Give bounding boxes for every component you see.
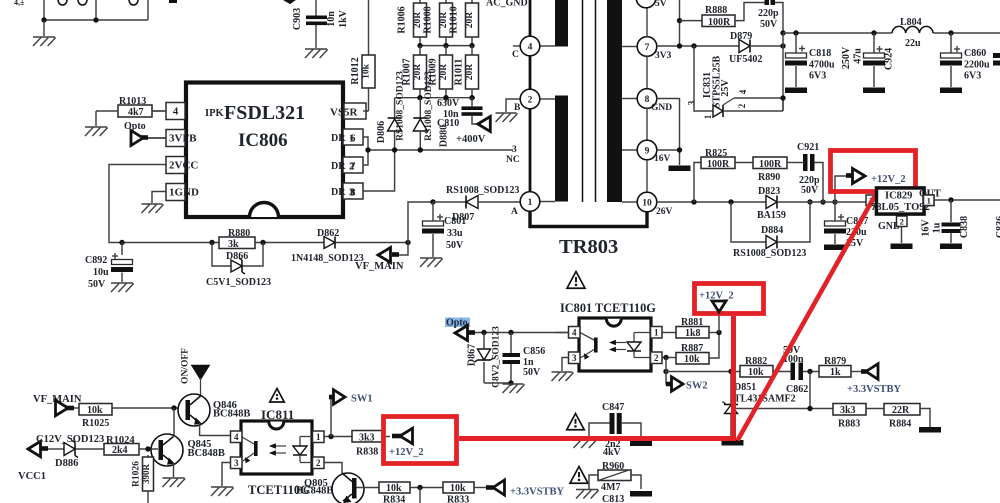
junction dot VF_MAIN node: [405, 240, 410, 245]
label Opto left: [124, 121, 146, 132]
svg-text:8: 8: [645, 95, 650, 105]
svg-text:VF_MAIN: VF_MAIN: [355, 261, 404, 272]
net arrow +12V_2 at R838: [389, 428, 424, 458]
svg-text:20R: 20R: [465, 64, 475, 81]
ground pin3 IC801: [552, 372, 574, 381]
svg-text:Opto: Opto: [124, 121, 146, 132]
svg-text:10k: 10k: [386, 483, 402, 494]
diode D884: [731, 202, 810, 259]
wire pin9 16V: [657, 149, 680, 151]
svg-text:20R: 20R: [465, 12, 475, 29]
svg-text:R838: R838: [356, 447, 378, 458]
wire 5V rail: [783, 32, 1000, 34]
pin 3 VFB of IC806: [148, 130, 197, 147]
transformer TR803 left winding bars: [555, 0, 568, 202]
svg-text:D884: D884: [761, 225, 783, 236]
junction dots bottom rail: [417, 95, 474, 100]
diode D806: [376, 98, 402, 150]
diode D862: [291, 228, 408, 264]
ground pin3 IC811: [211, 487, 234, 496]
op-amp IC801 optocoupler: [579, 318, 651, 371]
svg-text:4M7: 4M7: [601, 482, 620, 493]
pin 1 GND of IC806: [152, 184, 199, 204]
svg-text:100R: 100R: [708, 17, 731, 28]
resistor R1010: [449, 0, 479, 46]
resistor R890: [753, 157, 787, 183]
junction dots 26V rail: [691, 199, 837, 204]
pin 2 of IC801: [651, 352, 677, 364]
pin 10 of TR803: [622, 192, 673, 217]
label RS1008_SOD123 left: [396, 71, 406, 141]
pin 8 DR of IC806: [331, 150, 395, 199]
label IC801 TCET110G: [560, 301, 656, 315]
svg-text:D806: D806: [376, 121, 387, 143]
svg-text:1k: 1k: [830, 367, 841, 378]
wire Q845 collector: [173, 408, 175, 437]
resistor R882: [740, 356, 773, 378]
capacitor C856: [484, 333, 545, 384]
svg-text:UF5402: UF5402: [729, 54, 762, 65]
wire 26V rail left: [657, 201, 767, 203]
resistor R825: [694, 148, 753, 202]
resistor R884: [884, 404, 930, 430]
junction dots middle rail: [417, 43, 474, 48]
pin 2 B of TR803: [506, 89, 555, 113]
junction dots D879 cathode: [780, 30, 785, 48]
svg-text:R834: R834: [383, 495, 405, 503]
transformer TR803 core: [583, 0, 596, 202]
wire 12V output rail: [934, 199, 1000, 201]
svg-text:R1011: R1011: [454, 59, 465, 86]
svg-text:1: 1: [654, 328, 659, 338]
wire 3V3 rail: [657, 45, 740, 47]
svg-text:D823: D823: [758, 186, 780, 197]
svg-text:D886: D886: [55, 458, 78, 469]
node red box +12V_2 top: [695, 284, 764, 314]
svg-text:3: 3: [687, 100, 697, 105]
svg-text:10k: 10k: [450, 483, 466, 494]
svg-text:250V: 250V: [841, 46, 852, 69]
capacitor C847: [589, 402, 641, 458]
svg-text:C921: C921: [797, 142, 819, 153]
capacitor C818: [785, 33, 835, 87]
svg-text:R1012: R1012: [350, 57, 361, 84]
diode D807: [433, 196, 520, 224]
svg-text:22R: 22R: [892, 405, 910, 416]
svg-text:78L05_TO92: 78L05_TO92: [871, 202, 930, 213]
junction dot C892: [119, 240, 124, 245]
capacitor C838: [921, 200, 971, 243]
svg-text:16V: 16V: [654, 154, 671, 164]
svg-text:630V: 630V: [437, 98, 460, 109]
svg-text:ON/OFF: ON/OFF: [181, 348, 191, 384]
capacitor C862: [773, 345, 819, 395]
svg-text:RS1008_SOD123: RS1008_SOD123: [424, 71, 434, 141]
svg-text:DR: DR: [331, 133, 346, 144]
svg-text:50V: 50V: [446, 240, 464, 251]
pin 4 of IC801: [555, 327, 580, 339]
svg-text:D851: D851: [734, 382, 756, 393]
svg-text:SW2: SW2: [686, 381, 708, 392]
svg-text:RS1008_SOD123: RS1008_SOD123: [396, 71, 406, 141]
svg-text:C836: C836: [995, 216, 1000, 238]
wire C903 top: [315, 0, 317, 16]
svg-text:7: 7: [350, 161, 356, 173]
svg-text:BC848B: BC848B: [213, 409, 250, 420]
pin 2 of IC811: [313, 457, 343, 473]
svg-text:4: 4: [173, 105, 179, 117]
junction dot C801: [430, 199, 435, 204]
op-amp IC811 optocoupler: [241, 421, 313, 474]
svg-text:10k: 10k: [362, 63, 372, 79]
svg-text:4700u: 4700u: [809, 60, 835, 71]
svg-text:RS1008_SOD123: RS1008_SOD123: [733, 248, 806, 259]
pin 5 VSTR of IC806: [330, 103, 369, 119]
wire TL431 ref: [731, 408, 833, 410]
resistor R880: [219, 228, 324, 250]
svg-text:D866: D866: [226, 251, 248, 262]
svg-text:R890: R890: [758, 172, 780, 183]
svg-text:+400V: +400V: [456, 134, 486, 145]
pin 6 DR of IC806: [331, 129, 368, 150]
resistor R1006: [397, 0, 427, 46]
svg-text:R884: R884: [889, 419, 911, 430]
wire R1012 top: [368, 0, 370, 55]
wire red vertical annotation: [731, 316, 736, 441]
svg-text:2: 2: [316, 458, 321, 468]
svg-text:NC: NC: [506, 155, 520, 165]
node red box +12V_2 IC829: [831, 151, 916, 192]
capacitor C921: [787, 142, 823, 202]
wire top-left partial component leads: [14, 0, 177, 20]
pin 7 of TR803: [622, 0, 672, 88]
capacitor partial right edge: [993, 53, 1000, 66]
ground R960 right: [630, 491, 652, 497]
ground R1013: [85, 111, 108, 136]
pin 1 of IC801: [651, 327, 677, 339]
capacitor 220p snubber: [758, 0, 783, 33]
node red box +12V_2 R838: [384, 417, 457, 464]
net arrow +12V_2 at IC829: [835, 169, 906, 203]
ground top-left: [33, 20, 56, 46]
resistor R1012: [350, 55, 375, 111]
svg-text:+12V_2: +12V_2: [389, 447, 424, 458]
svg-text:4: 4: [528, 42, 533, 52]
resistor R1026: [132, 455, 154, 503]
svg-text:BC848B: BC848B: [296, 486, 333, 497]
svg-text:FSDL321: FSDL321: [224, 102, 305, 124]
junction dots opto wire: [481, 330, 513, 335]
svg-text:3: 3: [234, 458, 239, 468]
svg-text:C818: C818: [809, 48, 831, 59]
warning triangle R960: [570, 467, 588, 484]
diode D866 C5V1_SOD123: [206, 243, 271, 289]
net arrow +3.3VSTBY lower: [486, 480, 565, 498]
junction dots 3V3: [677, 18, 697, 49]
pin 1 of IC811: [313, 431, 353, 443]
net arrow +400V: [456, 117, 490, 146]
pin 8 GND of TR803: [622, 89, 672, 140]
svg-text:2VCC: 2VCC: [169, 160, 198, 172]
pin 9 of TR803: [622, 140, 671, 192]
svg-text:2k4: 2k4: [112, 445, 128, 456]
svg-text:4: 4: [572, 328, 577, 338]
svg-text:4: 4: [234, 432, 239, 442]
svg-text:20R: 20R: [439, 12, 449, 29]
resistor R1025: [79, 404, 184, 430]
net arrow partial top: [284, 0, 295, 4]
svg-text:SW1: SW1: [351, 394, 373, 405]
svg-text:1: 1: [703, 114, 713, 119]
resistor R1011: [454, 46, 479, 98]
wire Q845 emitter: [173, 463, 175, 477]
svg-text:C856: C856: [523, 346, 545, 357]
svg-text:R1025: R1025: [82, 418, 109, 429]
wire red diagonal annotation: [738, 192, 878, 441]
resistor R838: [352, 431, 390, 458]
wire resistor bank bottom rail: [395, 98, 475, 102]
junction dot C862 out: [807, 369, 812, 374]
svg-text:4kV: 4kV: [603, 447, 622, 458]
pin 2 VCC of IC806: [166, 157, 198, 174]
resistor R834: [379, 482, 443, 503]
svg-text:C12V_SOD123: C12V_SOD123: [36, 434, 104, 445]
svg-text:C8V2_SOD123: C8V2_SOD123: [492, 326, 502, 388]
junction dot R881: [716, 330, 721, 335]
svg-text:IC806: IC806: [238, 130, 288, 151]
label TCET110G: [248, 483, 310, 497]
diode D880: [413, 71, 449, 150]
warning triangle C847: [567, 414, 585, 430]
ground C924: [863, 88, 885, 94]
junction dot pin9: [677, 147, 682, 152]
diode D886: [55, 441, 104, 470]
label C12V_SOD123: [36, 434, 104, 445]
svg-text:22u: 22u: [905, 38, 921, 49]
svg-text:B: B: [514, 103, 521, 113]
svg-text:2: 2: [737, 103, 747, 108]
inductor L804: [892, 17, 933, 49]
junction dots drain node: [365, 147, 423, 152]
ground D851: [722, 440, 744, 446]
wire Q846 emitter to IC811: [200, 423, 232, 436]
svg-text:1: 1: [316, 432, 321, 442]
svg-text:3: 3: [512, 145, 517, 155]
svg-text:6V3: 6V3: [809, 71, 826, 82]
op-amp IC829 body outline: [871, 188, 941, 214]
svg-text:8: 8: [350, 187, 356, 199]
svg-text:C860: C860: [964, 48, 986, 59]
svg-text:1: 1: [528, 198, 533, 208]
wire TR803 bottom link: [530, 212, 647, 227]
junction dot SW1: [328, 434, 333, 439]
ground pin1 IC806: [142, 204, 164, 213]
pin 4 of IC806: [152, 103, 185, 120]
svg-text:VS5R: VS5R: [330, 107, 359, 119]
net arrow +12V_2 down: [699, 291, 734, 313]
wire VCC from pin2: [109, 165, 219, 243]
svg-text:4,±: 4,±: [14, 0, 25, 7]
label pin 3 NC of TR803: [506, 145, 520, 165]
svg-text:6V3: 6V3: [964, 71, 981, 82]
svg-text:100R: 100R: [707, 159, 730, 170]
resistor R1013: [96, 96, 166, 118]
svg-text:C810: C810: [437, 118, 459, 129]
wire drain node to pin3 NC: [368, 149, 513, 151]
svg-text:DR: DR: [331, 187, 346, 198]
svg-text:10: 10: [642, 198, 652, 208]
pin 7 DR of IC806: [331, 150, 368, 173]
resistor R1024: [104, 435, 158, 456]
svg-text:+12V_2: +12V_2: [871, 174, 906, 185]
svg-text:C: C: [512, 50, 519, 60]
warning triangle above IC801: [567, 272, 585, 289]
svg-text:20R: 20R: [413, 12, 423, 29]
wire red horizontal annotation: [459, 436, 736, 441]
transformer TR803 right winding bar: [607, 0, 622, 202]
ground Q845: [163, 478, 186, 487]
transistor IC831 STPS5L25B: [687, 46, 784, 119]
capacitor C924: [841, 33, 895, 87]
net arrow VCC1: [18, 441, 64, 482]
svg-text:50V: 50V: [801, 185, 819, 196]
transistor Q845: [151, 434, 225, 466]
svg-text:9: 9: [645, 146, 650, 156]
svg-text:7: 7: [645, 43, 650, 53]
pin 4 C of TR803: [512, 36, 555, 60]
wire TR803 primary line: [529, 0, 532, 212]
svg-text:DR: DR: [331, 161, 346, 172]
label RS1008_SOD123 D807: [446, 185, 519, 196]
junction dot R882 node: [728, 369, 733, 374]
resistor R883: [833, 404, 884, 430]
junction dot C856 gnd: [508, 380, 513, 385]
net arrow SW2: [666, 372, 708, 392]
svg-text:20R: 20R: [413, 64, 423, 81]
svg-text:6: 6: [350, 133, 356, 145]
svg-text:TR803: TR803: [559, 236, 618, 258]
junction dot Q846 base: [171, 405, 176, 410]
junction dots R880: [209, 240, 265, 245]
label D851: [734, 382, 796, 405]
svg-text:1u: 1u: [932, 222, 943, 233]
net arrow VF_MAIN right: [355, 243, 408, 273]
svg-text:C838: C838: [959, 216, 970, 238]
svg-text:10k: 10k: [748, 367, 764, 378]
ground C847 right: [630, 441, 652, 447]
svg-text:C801: C801: [444, 216, 466, 227]
ground R960 left: [576, 490, 599, 499]
svg-text:C892: C892: [85, 255, 107, 266]
pin 3 of IC801: [562, 352, 580, 371]
svg-text:IC829: IC829: [885, 191, 912, 202]
capacitor C860: [940, 33, 990, 87]
label ON/OFF: [181, 348, 191, 384]
wire to D807: [408, 202, 433, 243]
svg-text:R883: R883: [838, 419, 860, 430]
ground C860: [940, 88, 962, 94]
transistor D851 TL431: [723, 372, 739, 441]
diode D867 zener C8V2: [467, 326, 502, 388]
svg-text:+3.3VSTBY: +3.3VSTBY: [510, 487, 565, 498]
svg-text:3k3: 3k3: [840, 405, 856, 416]
svg-text:47u: 47u: [853, 48, 864, 64]
resistor R888: [680, 3, 766, 29]
svg-text:C5V1_SOD123: C5V1_SOD123: [206, 277, 271, 288]
junction dot IC831: [780, 95, 785, 100]
svg-text:2: 2: [900, 217, 904, 227]
svg-text:C813: C813: [602, 494, 624, 503]
svg-text:26V: 26V: [656, 207, 673, 217]
ground R884: [919, 427, 941, 433]
svg-text:100R: 100R: [759, 159, 782, 170]
svg-text:3VFB: 3VFB: [169, 133, 197, 145]
capacitor C903: [292, 8, 349, 48]
ground C892: [111, 283, 134, 292]
svg-text:BC848B: BC848B: [188, 448, 225, 459]
capacitor C810: [437, 98, 483, 129]
junction dot R1026: [145, 446, 150, 451]
pin 1 A of TR803: [511, 192, 555, 217]
resistor R1007: [402, 46, 427, 98]
svg-text:D862: D862: [317, 228, 339, 239]
diode D823 BA159: [757, 186, 866, 221]
capacitor C892: [85, 243, 133, 291]
label Opto highlighted: [445, 318, 470, 329]
svg-text:AC_GND: AC_GND: [486, 0, 528, 9]
svg-text:IC801 TCET110G: IC801 TCET110G: [560, 301, 656, 315]
svg-text:33u: 33u: [447, 228, 463, 239]
junction dot ref: [807, 406, 812, 411]
ground pin B: [496, 113, 518, 122]
transistor Q846: [178, 394, 250, 426]
svg-text:10n: 10n: [326, 11, 337, 27]
diode D879: [729, 31, 783, 65]
svg-text:5V: 5V: [655, 0, 667, 9]
junction dots SW2 node: [663, 355, 668, 374]
svg-text:10k: 10k: [87, 405, 103, 416]
svg-text:25V: 25V: [720, 79, 731, 97]
ground IC829: [891, 244, 913, 250]
resistor R887: [676, 333, 719, 366]
capacitor C817: [824, 202, 868, 249]
svg-text:4k7: 4k7: [128, 107, 144, 118]
pin 4 of IC811: [231, 431, 243, 443]
ground C838: [940, 244, 962, 250]
resistor R833: [443, 482, 486, 503]
resistor R1008: [423, 0, 453, 46]
junction dots top-left: [41, 17, 98, 22]
wire vstr rail vertical: [679, 0, 681, 46]
net arrow ON-OFF: [193, 366, 208, 395]
wire +12V_2 stub: [718, 312, 720, 333]
wire D879 node vertical: [782, 33, 784, 111]
svg-text:IPK: IPK: [205, 108, 225, 119]
ground 16V bar: [669, 166, 691, 172]
label TR803: [559, 236, 618, 258]
svg-text:3: 3: [572, 353, 577, 363]
svg-text:C924: C924: [884, 48, 895, 70]
junction dots 5V rail: [793, 30, 953, 35]
warning triangle IC811: [270, 389, 285, 402]
wire opto feedback: [475, 332, 569, 334]
svg-text:1k8: 1k8: [685, 328, 701, 339]
capacitor C801: [422, 202, 466, 257]
ground C818: [785, 88, 807, 94]
resistor R881: [676, 317, 719, 339]
svg-text:3k3: 3k3: [359, 433, 375, 444]
svg-text:R833: R833: [447, 495, 469, 503]
